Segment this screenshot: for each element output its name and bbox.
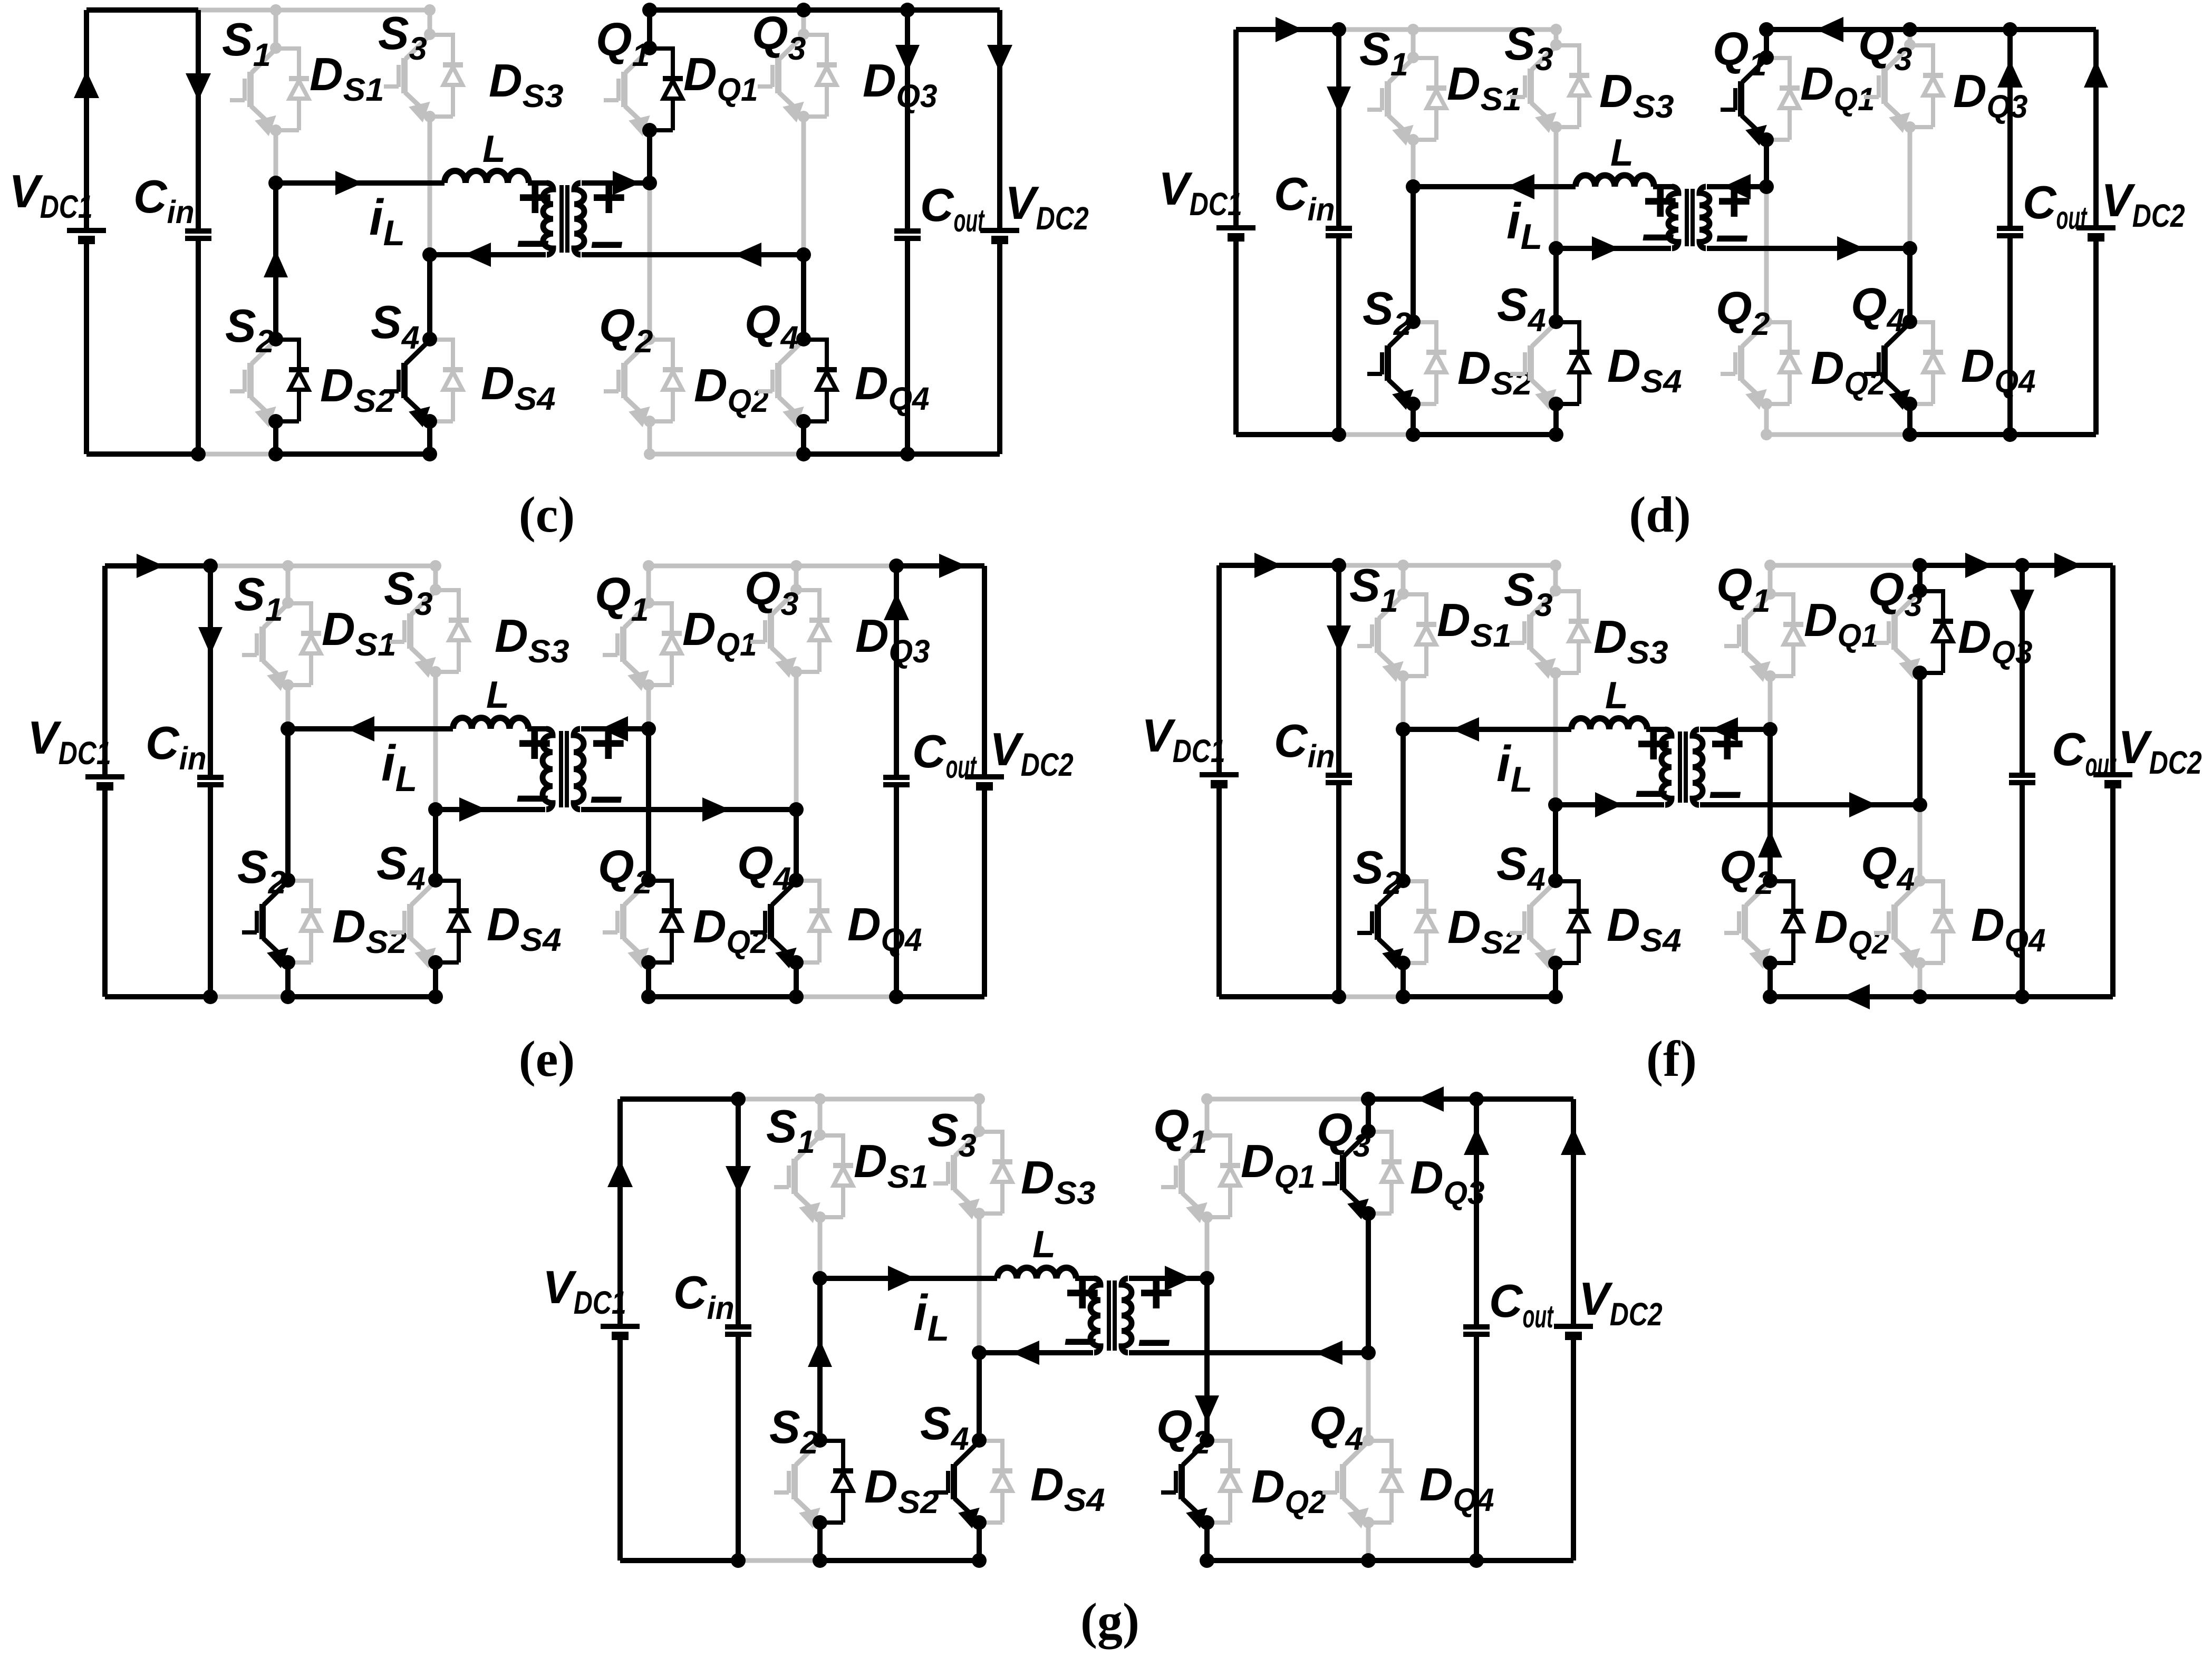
- wire Q1 emitter to node C: [646, 685, 651, 729]
- voltage source VDC2: [982, 566, 987, 777]
- node S3 collector: [430, 584, 441, 595]
- wire node D to Q4 collector: [1907, 248, 1912, 322]
- node S4 bottom: [1549, 427, 1563, 442]
- node Q3 top: [1361, 1092, 1376, 1106]
- wire transformer secondary return to node D: [582, 252, 804, 257]
- node Cout top: [2015, 558, 2030, 573]
- wire Q3 emitter to node D: [794, 672, 799, 810]
- wire S3 collector lead: [428, 10, 432, 34]
- wire transformer primary return to node B: [1556, 802, 1664, 807]
- wire top rail Cin-S3: [1339, 563, 1558, 568]
- wire Q2 emitter to bottom rail: [646, 962, 651, 997]
- node C junction: [1763, 722, 1778, 737]
- transformer primary winding: [1668, 187, 1678, 248]
- wire node C to Q2 collector: [1767, 729, 1773, 881]
- wire bottom rail Cout-V2: [1476, 1558, 1573, 1563]
- node Q4 collector: [789, 873, 804, 888]
- wire transformer secondary to node C: [582, 180, 650, 186]
- current arrow Cin: [1327, 86, 1351, 114]
- wire transformer secondary return to node D: [1700, 802, 1920, 807]
- transistor S2: [1385, 345, 1391, 381]
- wire Q4 emitter to bottom rail: [801, 421, 806, 454]
- node Q4 bottom: [796, 447, 811, 461]
- svg-text:–: –: [1715, 200, 1749, 268]
- wire bottom rail Cout-V2: [2010, 432, 2096, 437]
- voltage source VDC1: [1216, 565, 1222, 775]
- wire Q4 emitter to bottom rail: [1907, 404, 1912, 435]
- wire S1 emitter to node A: [1401, 676, 1406, 729]
- current arrow Cout: [1997, 60, 2023, 88]
- current arrow Cin: [726, 1166, 751, 1193]
- transistor Q1: [1742, 618, 1748, 653]
- node Q4 bottom: [1912, 989, 1927, 1004]
- wire Q2 emitter to bottom rail: [648, 421, 652, 454]
- node S2 collector: [268, 332, 283, 346]
- wire S4 emitter to bottom rail: [433, 962, 438, 997]
- transistor S4: [401, 363, 408, 398]
- wire inductor to primary winding: [1075, 1276, 1096, 1281]
- wire node D to Q4 collector: [1366, 1353, 1371, 1440]
- node Q2 bottom: [641, 989, 656, 1004]
- wire Q3 emitter to node D: [801, 117, 806, 255]
- transformer secondary winding: [1699, 187, 1709, 248]
- wire S3 emitter to node B: [433, 672, 438, 810]
- current arrow Cout: [895, 45, 920, 72]
- node Cin bottom: [191, 447, 206, 461]
- transistor S1: [259, 627, 266, 662]
- transistor S1: [1385, 81, 1391, 117]
- diode DQ2: [1207, 1439, 1230, 1443]
- wire bottom rail Q2-Q4: [1766, 432, 1910, 437]
- wire bottom rail Cout-V2: [2022, 994, 2113, 999]
- current arrow iL: [888, 1266, 915, 1291]
- current arrow secondary return: [1849, 792, 1877, 817]
- node S4 collector: [1549, 314, 1563, 329]
- wire transformer primary return to node B: [979, 1350, 1093, 1355]
- diode DQ3: [796, 588, 819, 592]
- node Q1 emitter: [1759, 132, 1774, 147]
- diode DS4: [1556, 879, 1579, 883]
- node Q4 collector: [1363, 1434, 1374, 1446]
- node Q1 top: [1201, 1093, 1213, 1105]
- current arrow secondary: [1723, 174, 1751, 199]
- wire Q3 emitter to node D: [1917, 673, 1923, 805]
- node S3 emitter: [973, 1208, 985, 1219]
- node C junction: [1759, 179, 1774, 194]
- wire bottom rail Cin-S2: [1339, 432, 1413, 437]
- wire S1 emitter to node A: [818, 1217, 823, 1278]
- current arrow top rail: [1276, 17, 1303, 42]
- wire node B to S4 collector: [977, 1353, 982, 1440]
- node Q3 collector: [1361, 1124, 1376, 1139]
- node Q3 emitter: [790, 666, 802, 678]
- wire transformer secondary return to node D: [581, 807, 796, 812]
- node S4 collector: [422, 332, 437, 346]
- wire Q3 emitter to node D: [1366, 1214, 1371, 1353]
- diode DS2: [1403, 879, 1426, 883]
- svg-text:(f): (f): [1646, 1031, 1697, 1087]
- node Q3 top: [796, 3, 811, 17]
- current arrow VDC2: [2084, 60, 2108, 88]
- diode DS2: [820, 1439, 843, 1443]
- transformer secondary winding: [1122, 1278, 1132, 1353]
- wire Q3 emitter to node D: [1908, 127, 1912, 248]
- node Cin bottom: [731, 1553, 746, 1568]
- node Q1 top: [1759, 22, 1774, 37]
- node S3 emitter: [424, 111, 436, 122]
- wire bottom rail V1-Cin: [1219, 994, 1339, 999]
- wire S1 emitter to node A: [1411, 140, 1416, 187]
- diode DS3: [979, 1130, 1002, 1134]
- node Q4 bottom: [789, 989, 804, 1004]
- inductor L: [997, 1268, 1076, 1278]
- node S2 emitter: [1406, 397, 1421, 411]
- inductor L: [453, 718, 528, 729]
- current arrow Cin: [198, 627, 223, 654]
- wire S1 emitter to node A: [274, 130, 278, 183]
- wire S4 emitter to bottom rail: [427, 421, 432, 454]
- wire bottom rail Q2-Q4: [650, 452, 804, 457]
- node Q4 emitter: [1363, 1517, 1374, 1528]
- voltage source VDC2: [1571, 1099, 1576, 1326]
- node Q2 bottom: [644, 448, 655, 460]
- wire top rail right gray part: [1770, 563, 1920, 568]
- node Cin top: [731, 1092, 746, 1106]
- wire Q3 collector lead: [801, 10, 806, 34]
- svg-text:L: L: [1032, 1224, 1056, 1266]
- transformer secondary winding: [574, 729, 584, 810]
- node Q1 emitter: [642, 123, 657, 138]
- svg-text:L: L: [482, 128, 506, 170]
- transistor Q3: [1340, 1155, 1346, 1190]
- svg-text:–: –: [1708, 757, 1742, 824]
- wire transformer secondary to node C: [1707, 184, 1766, 189]
- wire Q3 collector lead: [1917, 565, 1923, 591]
- wire S1 collector lead: [274, 10, 278, 48]
- node S2 bottom: [813, 1553, 827, 1568]
- wire top rail Cin-S3: [198, 8, 432, 13]
- wire S1 collector lead: [818, 1099, 823, 1135]
- current arrow iL: [1507, 174, 1534, 199]
- wire Q1 emitter to node C: [1768, 676, 1773, 729]
- node Q2 emitter: [1200, 1515, 1214, 1530]
- node S3 top: [1550, 24, 1562, 35]
- svg-text:–: –: [1641, 199, 1675, 267]
- capacitor Cin: [1336, 565, 1341, 775]
- wire top rail Cin-S3: [738, 1097, 981, 1102]
- node A junction: [1396, 722, 1411, 737]
- current arrow secondary: [601, 716, 628, 741]
- transistor Q1: [620, 627, 626, 662]
- current arrow primary return: [1592, 236, 1619, 261]
- wire Q3 collector lead: [794, 566, 799, 590]
- wire transformer primary return to node B: [436, 807, 545, 812]
- diode DS2: [1413, 320, 1436, 324]
- transistor S3: [1528, 69, 1534, 104]
- wire Q4 emitter to bottom rail: [1366, 1523, 1371, 1561]
- current arrow secondary return: [734, 243, 761, 267]
- wire bottom rail Q4-Cout: [1910, 432, 2010, 437]
- current arrow secondary return: [1837, 236, 1865, 261]
- wire bottom rail Cin-S2: [738, 1558, 820, 1563]
- transistor Q4: [1891, 904, 1898, 940]
- transistor S4: [1528, 345, 1534, 381]
- node S4 emitter: [422, 414, 437, 429]
- wire Q1 collector lead: [1764, 30, 1769, 57]
- node Q1 top: [1764, 560, 1776, 571]
- svg-text:L: L: [1610, 132, 1634, 174]
- svg-text:–: –: [516, 760, 549, 828]
- transformer core: [1685, 189, 1689, 246]
- diode DQ1: [1207, 1133, 1230, 1138]
- svg-text:–: –: [590, 762, 623, 829]
- node S3 collector: [1550, 585, 1561, 596]
- node Cout bottom: [2003, 427, 2017, 442]
- wire S3 collector lead: [977, 1099, 982, 1131]
- current arrow VDC1: [74, 71, 99, 98]
- node S3 emitter: [1550, 667, 1561, 679]
- wire node C to Q2 collector: [1764, 187, 1769, 322]
- diode DS4: [979, 1439, 1002, 1443]
- wire node B to S4 collector: [433, 810, 438, 880]
- inductor L: [1571, 718, 1647, 729]
- node Q4 collector: [1902, 314, 1917, 329]
- node Q3 emitter: [1912, 666, 1927, 680]
- node Q4 bottom: [1361, 1553, 1376, 1568]
- wire S3 collector lead: [1553, 565, 1558, 591]
- node Q3 collector: [1912, 583, 1927, 598]
- diode DQ2: [650, 338, 673, 342]
- node S3 collector: [973, 1125, 985, 1137]
- wire node A to inductor: [1403, 727, 1571, 732]
- capacitor Cout: [2007, 30, 2013, 228]
- node Cout top: [2003, 22, 2017, 37]
- current arrow VDC2: [987, 45, 1012, 72]
- node B junction: [972, 1345, 987, 1360]
- svg-text:(d): (d): [1629, 486, 1691, 543]
- wire node A to inductor: [1413, 184, 1576, 189]
- wire top rail right: [650, 7, 1000, 13]
- wire S1 collector lead: [1401, 565, 1406, 594]
- current arrow Cout: [1464, 1128, 1489, 1155]
- node S4 collector: [972, 1433, 987, 1448]
- node S3 emitter: [430, 666, 441, 678]
- wire Q4 emitter to bottom rail: [794, 962, 799, 997]
- node S3 top: [430, 560, 441, 572]
- wire Q1 emitter to node C: [1205, 1217, 1210, 1278]
- wire bottom rail Q2-Q4: [1207, 1558, 1368, 1563]
- node S1 top: [270, 4, 282, 16]
- node D junction: [1912, 797, 1927, 812]
- svg-text:–: –: [1064, 1304, 1097, 1371]
- wire transformer secondary return to node D: [1129, 1350, 1368, 1355]
- current arrow secondary return: [1315, 1341, 1342, 1365]
- wire Q2 emitter to bottom rail: [1764, 404, 1769, 435]
- wire top rail right gray part: [649, 564, 896, 569]
- diode DS1: [1403, 592, 1426, 596]
- wire bottom rail Q4-Cout: [804, 451, 907, 457]
- node Q2 emitter: [1761, 398, 1772, 410]
- wire bottom rail V1-Cin: [86, 451, 198, 457]
- node Q3 emitter: [1361, 1206, 1376, 1221]
- wire Q1 collector lead: [1205, 1099, 1210, 1135]
- diode DS4: [436, 879, 459, 883]
- voltage source VDC2: [2093, 30, 2099, 228]
- diode DQ2: [649, 879, 672, 883]
- node Cout top: [900, 3, 915, 17]
- current arrow iL: [347, 716, 374, 741]
- node A junction: [268, 176, 283, 190]
- transistor S4: [407, 904, 413, 939]
- wire S2 emitter to bottom rail: [1411, 404, 1416, 435]
- transformer primary winding: [1662, 729, 1672, 805]
- diode DQ3: [1920, 589, 1943, 593]
- diode DS1: [276, 46, 299, 51]
- diode DQ4: [804, 338, 827, 342]
- node Q1 collector: [642, 41, 657, 55]
- wire top rail right: [1920, 563, 2113, 568]
- diode DS3: [436, 588, 459, 592]
- wire S2 emitter to bottom rail: [817, 1523, 823, 1561]
- wire transformer secondary to node C: [581, 726, 649, 731]
- capacitor Cin: [736, 1099, 741, 1327]
- transistor Q2: [1738, 345, 1744, 381]
- transistor Q4: [1881, 345, 1888, 381]
- node Q4 emitter: [796, 414, 811, 429]
- transistor Q1: [621, 72, 627, 107]
- wire top rail V1-Cin: [620, 1096, 738, 1102]
- transformer core: [559, 731, 563, 807]
- current arrow S leg: [264, 250, 288, 277]
- voltage source VDC2: [2110, 565, 2116, 775]
- node B junction: [428, 802, 443, 817]
- diode DS3: [430, 33, 453, 37]
- diode DS3: [1556, 43, 1579, 47]
- wire Q1 emitter to node C: [647, 130, 652, 183]
- node Q1 collector: [1764, 588, 1776, 600]
- current arrow primary return: [459, 797, 487, 822]
- wire S3 collector lead: [433, 566, 438, 590]
- current arrow Cin: [186, 73, 211, 101]
- current arrow Cout: [2010, 590, 2034, 617]
- wire transformer primary return to node B: [1556, 246, 1671, 251]
- node Cin bottom: [203, 989, 218, 1004]
- transistor Q4: [1340, 1464, 1346, 1499]
- node Cout top: [889, 558, 904, 573]
- wire top rail right: [1766, 27, 2096, 32]
- wire S1 emitter to node A: [286, 685, 291, 729]
- diode DS3: [1556, 589, 1579, 593]
- node S2 collector: [1396, 873, 1411, 888]
- voltage source VDC1: [84, 10, 89, 230]
- node S3 collector: [1550, 39, 1562, 51]
- wire top rail Cin-S3: [210, 564, 438, 569]
- capacitor Cin: [1336, 30, 1341, 228]
- capacitor Cout: [1474, 1099, 1479, 1327]
- transistor S4: [1527, 904, 1533, 940]
- node S4 emitter: [1549, 397, 1563, 411]
- node S1 collector: [814, 1129, 826, 1141]
- node S3 collector: [424, 28, 436, 40]
- node Cin top: [203, 558, 218, 573]
- wire transformer primary return to node B: [430, 252, 546, 257]
- node C junction: [641, 721, 656, 736]
- wire Q3 collector lead: [1908, 30, 1912, 45]
- svg-text:L: L: [486, 674, 509, 716]
- transistor S3: [951, 1155, 957, 1190]
- node Q2 collector: [1763, 873, 1778, 888]
- wire S3 emitter to node B: [1553, 673, 1558, 805]
- diode DS4: [430, 338, 453, 342]
- wire bottom rail Q4-Cout: [1920, 994, 2022, 999]
- node Q1 collector: [643, 597, 654, 609]
- diode DQ1: [650, 46, 673, 51]
- current arrow primary return: [463, 243, 491, 267]
- wire Q1 collector lead: [1768, 565, 1773, 594]
- node S2 emitter: [813, 1515, 827, 1530]
- wire inductor to primary winding: [528, 180, 549, 186]
- node S1 emitter: [1397, 670, 1409, 682]
- wire Q1 emitter to node C: [1764, 140, 1769, 187]
- svg-text:(c): (c): [519, 486, 575, 543]
- svg-text:(e): (e): [519, 1031, 575, 1087]
- current arrow VDC2: [1561, 1128, 1586, 1155]
- node S2 bottom: [1396, 989, 1411, 1004]
- node Q4 emitter: [789, 955, 804, 970]
- node Cout bottom: [2015, 989, 2030, 1004]
- wire bottom rail V1-Cin: [620, 1558, 738, 1563]
- node Q1 collector: [1759, 50, 1774, 65]
- node S1 top: [282, 560, 294, 572]
- wire Q2 emitter to bottom rail: [1767, 963, 1773, 997]
- diode DQ4: [796, 879, 819, 883]
- transistor S3: [1527, 614, 1533, 650]
- diode DQ1: [649, 601, 672, 605]
- voltage source VDC1: [617, 1099, 623, 1326]
- wire inductor to primary winding: [1653, 184, 1674, 189]
- node S1 collector: [1407, 52, 1419, 63]
- wire Q2 emitter to bottom rail: [1204, 1523, 1210, 1561]
- capacitor Cout: [905, 10, 910, 231]
- transistor S1: [247, 72, 254, 107]
- node S1 collector: [282, 597, 294, 609]
- node Q2 bottom: [1763, 989, 1778, 1004]
- wire S4 emitter to bottom rail: [977, 1523, 982, 1561]
- wire node B to S4 collector: [427, 255, 432, 339]
- transformer primary winding: [543, 183, 553, 255]
- node Q4 emitter: [1902, 397, 1917, 411]
- wire bottom rail Cout-V2: [896, 994, 984, 999]
- transistor S2: [791, 1464, 798, 1499]
- wire node C to Q2 collector: [646, 729, 651, 880]
- diode DQ4: [1920, 879, 1943, 883]
- node S2 emitter: [1396, 956, 1411, 970]
- node D junction: [789, 802, 804, 817]
- current arrow primary return: [1595, 792, 1622, 817]
- transistor S1: [791, 1159, 798, 1194]
- wire bottom rail Q4-Cout: [796, 995, 896, 999]
- voltage source VDC1: [102, 566, 108, 777]
- current arrow secondary: [1165, 1266, 1192, 1291]
- diode DS2: [276, 338, 299, 342]
- capacitor Cin: [196, 10, 201, 231]
- wire transformer secondary to node C: [1700, 727, 1770, 732]
- wire Q1 collector lead: [646, 566, 651, 603]
- transistor Q2: [1742, 904, 1748, 940]
- current arrow top right rail: [939, 554, 967, 578]
- node S3 top: [973, 1093, 985, 1105]
- transistor Q1: [1179, 1159, 1185, 1194]
